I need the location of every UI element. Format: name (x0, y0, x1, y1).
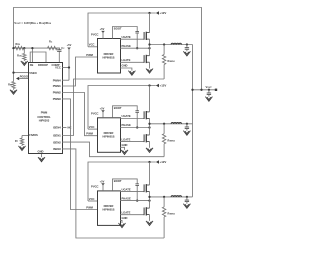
node sense/RFB junction (12, 47, 14, 49)
resistor RFB (15, 43, 24, 50)
label BOOT driver 1 (114, 27, 122, 31)
label +12V driver 3 (160, 160, 167, 164)
transistor Q2 lower MOSFET (144, 55, 149, 63)
wire ISEN3 to phase 3 sense (62, 149, 164, 238)
svg-text:RC: RC (49, 41, 53, 44)
wire PWM1 to driver 1 (62, 57, 97, 86)
wire VCC pin connection (62, 67, 69, 69)
wire BOOT driver 2 (113, 106, 138, 118)
label BOOT driver 3 (114, 179, 122, 183)
node output cap junction driver 1 (186, 43, 188, 45)
ground below ROS (21, 61, 28, 66)
wire LGATE driver 2 (120, 141, 144, 143)
wire phase node row driver 1 (150, 44, 193, 46)
resistor RC compensation (48, 41, 58, 50)
wire PHASE driver 2 (120, 127, 150, 129)
svg-text:VOUT: VOUT (205, 85, 212, 89)
label controller name (37, 111, 51, 123)
label pin VSEN (29, 71, 36, 75)
svg-text:HIP6601B: HIP6601B (103, 208, 115, 212)
svg-text:FS/DIS: FS/DIS (29, 133, 38, 137)
transistor Q6 lower MOSFET (144, 207, 149, 215)
svg-text:+5V: +5V (100, 180, 105, 184)
resistor RISEN1 (162, 45, 174, 80)
label pin PWM2 (53, 91, 62, 95)
terminal VOUT (215, 89, 217, 91)
svg-text:PGOOD: PGOOD (20, 76, 30, 79)
node PHASE junction driver 2 (148, 126, 150, 128)
svg-text:UGATE: UGATE (122, 114, 131, 118)
label BOOT driver 2 (114, 106, 122, 110)
terminal +5V PVCC driver 1 (100, 27, 105, 38)
svg-text:ISEN3: ISEN3 (53, 147, 61, 151)
wire LGATE driver 3 (120, 214, 144, 216)
capacitor COUT with ground (205, 90, 212, 101)
wire Q2 source to ground (149, 62, 151, 68)
svg-text:+5V: +5V (67, 43, 72, 47)
wire ISEN1 to phase 1 sense (62, 79, 164, 136)
label pin FS/DIS (29, 133, 38, 137)
svg-text:ISEN2: ISEN2 (53, 140, 61, 144)
transistor Q3 upper MOSFET (144, 111, 149, 119)
label pin ISEN3 (53, 147, 61, 151)
label VCC driver 2 (89, 125, 95, 129)
wire UGATE driver 1 (120, 38, 144, 40)
svg-text:VCC: VCC (89, 197, 95, 201)
svg-text:PWM2: PWM2 (53, 91, 62, 95)
label PHASE driver 3 (122, 196, 131, 200)
svg-text:RT: RT (15, 140, 19, 143)
svg-text:PHASE: PHASE (122, 44, 131, 48)
label PGOOD (20, 76, 30, 79)
label pin PWM3 (53, 97, 62, 101)
svg-text:PWM1: PWM1 (53, 84, 62, 88)
label PWM driver 3 (86, 205, 93, 209)
transistor Q4 lower MOSFET (144, 134, 149, 142)
node FB stub junction (31, 47, 33, 49)
svg-text:RFB: RFB (16, 43, 21, 46)
svg-text:GND: GND (122, 143, 128, 147)
wire LGATE driver 1 (120, 61, 144, 63)
label driver name 2 (103, 131, 115, 139)
label driver name 3 (103, 204, 115, 212)
node sense line junction (200, 89, 202, 91)
label pin VCC (55, 66, 61, 70)
wire GND driver 3 (120, 220, 122, 223)
svg-text:ROS: ROS (17, 55, 22, 58)
capacitor output phase 3 with ground (183, 197, 190, 208)
resistor ROS to ground (17, 48, 26, 61)
svg-text:RIN: RIN (8, 83, 12, 86)
wire VOUT row (193, 89, 217, 91)
wire Q5 drain from +12V (149, 162, 151, 185)
wire ISEN4 NC stub (62, 127, 67, 129)
wire GND driver 1 (120, 68, 132, 71)
node RISEN junction driver 3 (163, 196, 165, 198)
label GND driver 2 (122, 143, 128, 147)
svg-text:RISEN3: RISEN3 (168, 212, 175, 215)
terminal PGOOD output arrow (16, 77, 28, 80)
wire Q2 drain from phase (149, 45, 151, 56)
svg-text:UGATE: UGATE (122, 187, 131, 191)
wire Q3 drain from +12V (149, 86, 151, 112)
label pin ISEN2 (53, 140, 61, 144)
svg-text:GND: GND (38, 149, 44, 153)
wire PHASE driver 3 (120, 200, 150, 202)
label VCC driver 3 (89, 197, 95, 201)
transistor Q1 upper MOSFET (144, 32, 149, 40)
inductor L1 (171, 43, 181, 44)
label +12V driver 2 (160, 84, 167, 88)
capacitor CB bootstrap driver 2 (135, 111, 139, 128)
svg-text:ISEN4: ISEN4 (53, 126, 61, 130)
svg-text:+5V: +5V (100, 106, 105, 110)
node CB to PHASE junction driver 3 (136, 199, 138, 201)
wire UGATE driver 2 (120, 118, 144, 120)
svg-text:PHASE: PHASE (122, 196, 131, 200)
wire phase node row driver 3 (150, 196, 193, 198)
op-amp U1 PWM controller HIP6303 box (29, 63, 63, 154)
terminal +12V arrow driver 2 (156, 84, 159, 87)
ground Q4 source (146, 148, 153, 153)
svg-text:LGATE: LGATE (122, 210, 131, 214)
label VOUT (205, 85, 212, 89)
svg-text:PWM: PWM (41, 111, 48, 115)
node RISEN junction driver 1 (163, 43, 165, 45)
wire VOUT sense loop from output to feedback network (14, 8, 202, 90)
svg-text:CONTROL: CONTROL (37, 115, 51, 119)
svg-text:PWM: PWM (86, 53, 93, 57)
ground below RT (19, 146, 26, 151)
node VSEN junction on sense line (12, 71, 14, 73)
transistor Q5 upper MOSFET (144, 184, 149, 192)
svg-text:PWM: PWM (86, 132, 93, 136)
svg-text:DRIVER: DRIVER (104, 204, 114, 208)
wire VSEN connection (14, 72, 29, 74)
wire UGATE driver 3 (120, 191, 144, 193)
label pin DROOP (38, 63, 48, 67)
node COUT junction (208, 89, 210, 91)
inductor L3 (171, 196, 181, 197)
svg-text:VCC: VCC (55, 66, 61, 70)
wire output rail (192, 45, 194, 197)
resistor RIN lower divider (8, 82, 15, 90)
node +12V junction driver 2 (148, 84, 150, 86)
resistor RISEN3 (162, 197, 174, 238)
svg-text:DRIVER: DRIVER (104, 52, 114, 56)
inductor L2 (171, 123, 181, 124)
svg-text:PVCC: PVCC (91, 32, 99, 36)
wire BOOT driver 3 (113, 179, 138, 191)
label pin PWM1 (53, 84, 62, 88)
svg-text:+5V: +5V (100, 27, 105, 31)
svg-text:PVCC: PVCC (91, 185, 99, 189)
capacitor output phase 2 with ground (183, 124, 190, 135)
wire Q1 source to phase (149, 39, 151, 44)
node RISEN junction driver 2 (163, 123, 165, 125)
wire Q5 source to phase (149, 192, 151, 197)
svg-text:+12V: +12V (160, 84, 167, 88)
node FB junction (23, 47, 25, 49)
wire PWM4 tie to +5V (62, 79, 69, 81)
note output voltage formula (14, 21, 51, 25)
ground driver 1 GND pin (128, 71, 135, 76)
wire FS/DIS to RT (22, 136, 28, 139)
wire Q1 drain from +12V (149, 13, 151, 33)
label pin COMP (52, 63, 60, 67)
ground Q6 source (146, 221, 153, 226)
terminal +5V PVCC driver 3 (100, 180, 105, 191)
svg-text:RISEN1: RISEN1 (168, 60, 175, 63)
capacitor CC compensation (57, 47, 65, 63)
wire FB node row (14, 47, 61, 49)
label PVCC driver 2 (91, 112, 99, 116)
capacitor output phase 1 with ground (183, 45, 190, 56)
wire BOOT driver 1 (113, 27, 138, 39)
svg-text:BOOT: BOOT (114, 179, 122, 183)
wire FB-DROOP tie bridge (30, 52, 46, 63)
label pin PWM4 (53, 78, 62, 82)
node CB to PHASE junction driver 2 (136, 126, 138, 128)
label UGATE driver 3 (122, 187, 131, 191)
svg-text:BOOT: BOOT (114, 27, 122, 31)
node +12V junction driver 3 (148, 161, 150, 163)
wire Q6 drain from phase (149, 197, 151, 208)
svg-text:PWM: PWM (86, 205, 93, 209)
label UGATE driver 2 (122, 114, 131, 118)
wire +12V rail driver 3 (88, 162, 156, 201)
ground below RIN (10, 90, 17, 95)
label LGATE driver 2 (122, 137, 131, 141)
node phase junction driver 3 (148, 196, 150, 198)
wire Q4 source to ground (149, 142, 151, 148)
svg-text:LGATE: LGATE (122, 137, 131, 141)
label +12V driver 1 (160, 11, 167, 15)
label VCC driver 1 (89, 43, 95, 47)
ground controller GND (38, 157, 45, 162)
node output cap junction driver 2 (186, 123, 188, 125)
wire ISEN2 to phase 2 sense (62, 142, 164, 157)
label GND driver 3 (122, 216, 128, 220)
op-amp U3 driver HIP6601B box (98, 118, 121, 153)
svg-text:DROOP: DROOP (38, 63, 48, 67)
node phase junction driver 1 (148, 43, 150, 45)
label UGATE driver 1 (122, 35, 131, 39)
svg-text:PWM4: PWM4 (53, 78, 62, 82)
label LGATE driver 1 (122, 58, 131, 62)
label PVCC driver 3 (91, 185, 99, 189)
node +12V junction driver 1 (148, 12, 150, 14)
svg-text:PVCC: PVCC (91, 112, 99, 116)
svg-text:GND: GND (122, 216, 128, 220)
wire Q4 drain from phase (149, 124, 151, 135)
terminal +12V arrow driver 3 (156, 160, 159, 163)
label LGATE driver 3 (122, 210, 131, 214)
wire VCC driver 3 (88, 200, 97, 202)
terminal +12V arrow driver 1 (156, 11, 159, 14)
wire +12V rail driver 1 (88, 13, 156, 47)
label PVCC driver 1 (91, 32, 99, 36)
svg-text:PHASE: PHASE (122, 123, 131, 127)
svg-text:VCC: VCC (89, 43, 95, 47)
label PHASE driver 2 (122, 123, 131, 127)
wire controller GND stub (41, 154, 43, 158)
capacitor CB bootstrap driver 3 (135, 184, 139, 201)
ground Q2 source (146, 69, 153, 74)
resistor RT (15, 138, 24, 146)
node phase junction driver 2 (148, 123, 150, 125)
label pin ISEN4 (53, 126, 61, 130)
wire VCC driver 2 (88, 128, 97, 130)
node rail VOUT junction (191, 89, 193, 91)
svg-text:CC: CC (61, 47, 65, 50)
label PHASE driver 1 (122, 44, 131, 48)
svg-text:GND: GND (122, 64, 128, 68)
svg-text:VSEN: VSEN (29, 71, 36, 75)
svg-text:FB: FB (30, 63, 34, 67)
node CB to PHASE junction driver 1 (136, 47, 138, 49)
label pin ISEN1 (53, 134, 61, 138)
capacitor CB bootstrap driver 1 (135, 32, 139, 49)
svg-text:HIP6303: HIP6303 (39, 118, 50, 122)
svg-text:DRIVER: DRIVER (104, 131, 114, 135)
wire Q6 source to ground (149, 215, 151, 221)
op-amp U2 driver HIP6601B box (98, 39, 121, 74)
svg-text:HIP6601B: HIP6601B (103, 55, 115, 59)
svg-text:VCC: VCC (89, 125, 95, 129)
node VCC junction (68, 66, 70, 68)
wire GND driver 2 (120, 147, 125, 150)
wire PWM2 to driver 2 (62, 93, 97, 136)
svg-text:RISEN2: RISEN2 (168, 139, 175, 142)
svg-text:UGATE: UGATE (122, 35, 131, 39)
ground driver 3 GND pin (119, 223, 126, 228)
op-amp U4 driver HIP6601B box (98, 191, 121, 226)
svg-text:BOOT: BOOT (114, 106, 122, 110)
svg-text:+12V: +12V (160, 160, 167, 164)
wire VCC driver 1 (88, 46, 97, 48)
ground driver 2 GND pin (121, 150, 128, 155)
wire FB pin stub (31, 48, 33, 62)
svg-text:LGATE: LGATE (122, 58, 131, 62)
label pin FB (30, 63, 34, 67)
svg-text:PWM3: PWM3 (53, 97, 62, 101)
wire PHASE driver 1 (120, 47, 150, 49)
label PWM driver 2 (86, 132, 93, 136)
label NC (68, 126, 72, 130)
svg-text:HIP6601B: HIP6601B (103, 135, 115, 139)
terminal +5V PVCC driver 2 (100, 106, 105, 117)
svg-text:ISEN1: ISEN1 (53, 134, 61, 138)
svg-text:VOUT = 0.8V(RFB + ROS)/ROS: VOUT = 0.8V(RFB + ROS)/ROS (14, 21, 51, 25)
label PWM driver 1 (86, 53, 93, 57)
label GND driver 1 (122, 64, 128, 68)
label driver name 1 (103, 52, 115, 60)
resistor RISEN2 (162, 124, 174, 157)
wire phase node row driver 2 (150, 123, 193, 125)
wire Q3 source to phase (149, 118, 151, 123)
terminal +5V supply for controller (67, 43, 72, 80)
node PHASE junction driver 1 (148, 47, 150, 49)
node PHASE junction driver 3 (148, 199, 150, 201)
wire +12V rail driver 2 (88, 86, 156, 130)
wire PWM3 to driver 3 (62, 99, 97, 210)
node output cap junction driver 3 (186, 196, 188, 198)
label pin GND controller (38, 149, 44, 153)
svg-text:+12V: +12V (160, 11, 167, 15)
